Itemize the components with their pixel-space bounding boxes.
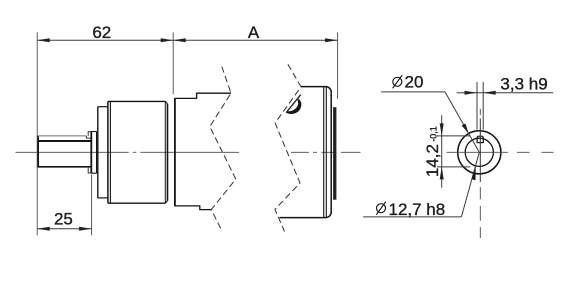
terminal boss: [333, 107, 336, 200]
centerline horizontal end view: [447, 151, 554, 153]
key: [477, 136, 484, 142]
end cap rings: [323, 87, 325, 218]
extension line at flange face (shared by 62 and A): [172, 32, 174, 94]
dimension 62: [37, 39, 173, 41]
svg-text:3,3 h9: 3,3 h9: [500, 75, 547, 94]
shaft: [38, 132, 92, 173]
mounting flange face: [174, 98, 176, 205]
svg-text:14,2: 14,2: [423, 144, 442, 177]
extension line at motor rear (A right): [337, 32, 339, 98]
centerline vertical end view: [479, 109, 481, 238]
svg-text:-0,1: -0,1: [429, 126, 439, 142]
gearbox cylinder: [108, 101, 168, 203]
break line right: [275, 64, 301, 231]
centerline side view: [16, 151, 361, 153]
wire tail: [286, 95, 301, 113]
dimension A: [173, 39, 337, 41]
dimension 25: [37, 228, 91, 230]
extension line left (shaft face, shared by 62 and 25): [36, 32, 38, 235]
dimension 3,3 h9: [457, 82, 554, 130]
svg-text:25: 25: [54, 210, 73, 229]
wire curl: [287, 100, 300, 113]
extension line shaft end (25 right): [91, 175, 93, 236]
svg-text:A: A: [248, 23, 260, 42]
dimension 14,2: [437, 115, 470, 188]
leader diameter 12,7 h8: [363, 152, 479, 217]
collar: [91, 132, 96, 174]
svg-text:20: 20: [405, 73, 424, 92]
svg-text:12,7 h8: 12,7 h8: [389, 200, 446, 219]
end view shaft circle: [465, 138, 493, 166]
motor mid housing: [174, 93, 231, 209]
svg-text:62: 62: [92, 23, 111, 42]
leader diameter 20: [381, 92, 479, 152]
bearing housing: [98, 107, 108, 198]
break line left: [210, 67, 236, 232]
end cap: [280, 87, 332, 218]
end view outer circle: [458, 131, 501, 174]
